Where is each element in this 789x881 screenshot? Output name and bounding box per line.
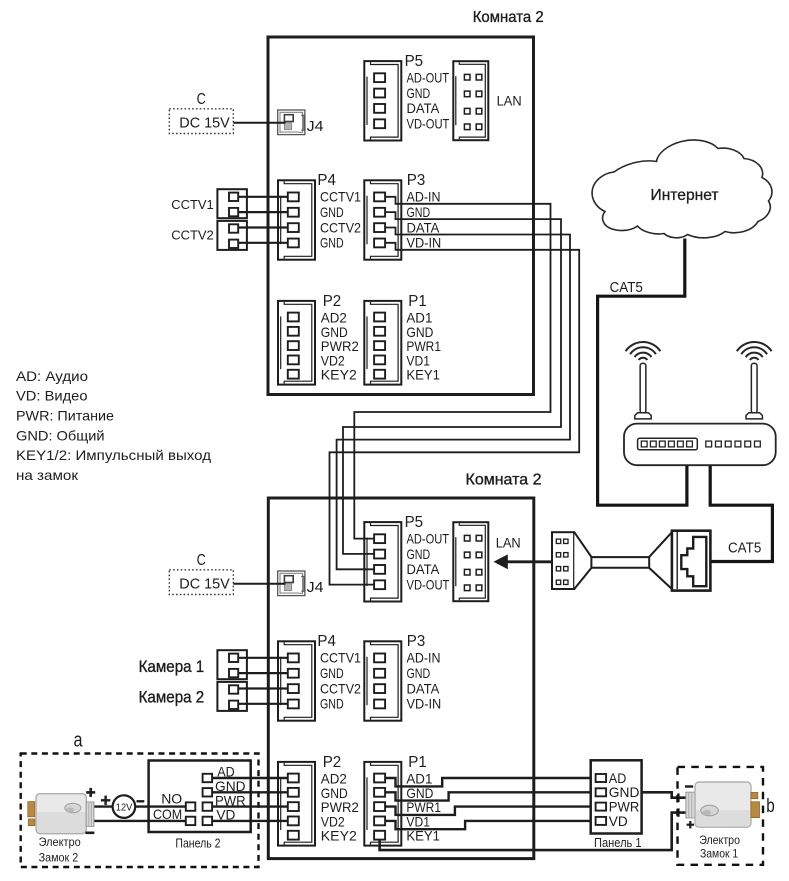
svg-text:KEY1: KEY1 [406, 367, 440, 383]
wire P3 DATA to lower P5 DATA [337, 228, 570, 570]
plus sign below lock 1 terminal [687, 821, 694, 828]
wires CCTV inputs to P4 (upper unit) [238, 197, 288, 243]
svg-text:CAT5: CAT5 [728, 540, 761, 556]
wires cameras to P4 (lower unit) [238, 658, 288, 704]
wire P3 AD-IN to lower P5 AD-OUT [354, 197, 550, 539]
wire DC15V to J4 (lower unit) [233, 583, 285, 585]
svg-text:CCTV2: CCTV2 [320, 680, 361, 696]
CAT5 cable internet to router [598, 239, 687, 506]
wire DC15V to J4 (upper unit) [233, 122, 285, 124]
connector J4 (upper unit) [278, 110, 324, 135]
svg-text:P5: P5 [405, 53, 424, 70]
svg-text:Электро: Электро [699, 833, 740, 847]
svg-text:Панель 2: Панель 2 [175, 835, 220, 850]
svg-text:P1: P1 [408, 754, 427, 771]
wire P1 AD1 to Panel 1 AD [385, 778, 591, 786]
svg-text:VD: VD [609, 813, 628, 829]
wire P1 GND to Panel 1 GND [385, 792, 591, 800]
patch cord connector (to LAN) [552, 532, 574, 589]
wire 12V source to panel 2 NO [135, 805, 186, 807]
svg-text:P4: P4 [317, 633, 336, 650]
minus sign below lock 2 terminal [85, 831, 94, 834]
svg-text:PWR: Питание: PWR: Питание [16, 408, 114, 424]
panel 1 pins AD GND PWR VD [596, 770, 640, 829]
camera 2 connector (lower unit) [139, 682, 247, 711]
minus sign right of 12V source [137, 800, 145, 802]
svg-text:Электро: Электро [39, 835, 81, 849]
legend text [16, 368, 211, 483]
wire P3 GND to lower P5 GND [343, 212, 561, 554]
svg-text:GND: GND [320, 204, 344, 220]
svg-text:Панель 1: Панель 1 [594, 835, 642, 850]
minus sign above lock 1 terminal [685, 785, 693, 787]
wire panel 1 GND to electric lock 1 [642, 792, 686, 797]
svg-text:NO: NO [161, 791, 182, 807]
connector P4 (lower unit) [278, 633, 361, 721]
power supply C: DC 15V (upper unit) [169, 91, 233, 133]
svg-text:GND: GND [407, 665, 431, 681]
svg-text:AD-IN: AD-IN [407, 189, 441, 205]
svg-text:DATA: DATA [407, 219, 440, 235]
connector P5 (upper unit) [364, 53, 449, 140]
12V power source circle [113, 795, 136, 818]
CAT5 cable router to patch cord [710, 465, 772, 561]
svg-text:P3: P3 [407, 633, 426, 650]
RJ45 plug of patch cord [672, 531, 711, 591]
svg-text:Камера 1: Камера 1 [139, 657, 205, 676]
svg-text:VD: Видео: VD: Видео [16, 388, 88, 404]
svg-text:CCTV1: CCTV1 [320, 189, 361, 205]
svg-text:C: C [197, 91, 206, 108]
svg-text:CCTV2: CCTV2 [320, 219, 361, 235]
camera 1 connector (lower unit) [139, 650, 247, 679]
svg-text:VD-OUT: VD-OUT [407, 577, 450, 593]
node label Комната 2 (upper unit) [473, 9, 544, 26]
svg-text:DATA: DATA [407, 100, 440, 116]
svg-text:DC 15V: DC 15V [179, 114, 229, 131]
connector P2 (upper unit) [278, 293, 359, 385]
internet cloud [592, 140, 772, 238]
svg-text:DC 15V: DC 15V [179, 575, 229, 592]
panel 2 right pin row AD GND PWR VD [203, 764, 246, 825]
connector P5 (lower unit) [364, 514, 449, 601]
connector P3 (lower unit) [364, 633, 441, 721]
svg-text:COM: COM [153, 806, 182, 822]
terminal tick on lock 1 KEY1 wire [677, 808, 679, 816]
svg-text:KEY2: KEY2 [321, 828, 357, 844]
svg-text:AD: Аудио: AD: Аудио [16, 368, 88, 384]
wire P1 PWR1 to Panel 1 PWR [385, 807, 591, 815]
svg-text:C: C [197, 552, 206, 569]
svg-text:GND: Общий: GND: Общий [16, 427, 105, 443]
svg-text:AD-OUT: AD-OUT [407, 70, 450, 86]
svg-text:GND: GND [320, 235, 344, 251]
svg-text:VD-OUT: VD-OUT [407, 116, 450, 132]
connector P4 (upper unit) [278, 172, 361, 260]
connector J4 (lower unit) [278, 571, 324, 596]
svg-text:DATA: DATA [407, 561, 440, 577]
wire lock 2 to 12V source [94, 805, 113, 807]
plus sign left of 12V source [101, 796, 110, 805]
node label Комната 2 (lower unit) [466, 472, 542, 489]
svg-text:AD-IN: AD-IN [407, 650, 441, 666]
svg-text:CCTV1: CCTV1 [171, 197, 214, 212]
upper unit enclosure box [268, 37, 534, 395]
CCTV2 camera input connector (upper unit) [171, 221, 247, 250]
svg-text:P4: P4 [317, 172, 336, 189]
connector P2 (lower unit) [278, 754, 359, 846]
dashed outline box a [21, 730, 259, 868]
svg-text:CCTV2: CCTV2 [171, 228, 214, 243]
svg-text:VD-IN: VD-IN [407, 696, 442, 712]
label CAT5 (internet cable) [610, 280, 643, 296]
CCTV1 camera input connector (upper unit) [171, 189, 247, 218]
terminal tick on lock 1 GND wire [677, 793, 679, 802]
dashed outline box b [678, 767, 775, 865]
lower unit enclosure box [268, 498, 534, 859]
svg-text:GND: GND [407, 85, 431, 101]
router right antenna [737, 342, 772, 419]
svg-text:DATA: DATA [407, 680, 440, 696]
svg-text:Замок 1: Замок 1 [700, 847, 738, 861]
svg-text:LAN: LAN [496, 535, 521, 551]
connector P1 (lower unit) [364, 754, 441, 846]
svg-text:GND: GND [320, 665, 344, 681]
svg-text:AD-OUT: AD-OUT [407, 531, 450, 547]
electric lock 1 [686, 782, 760, 861]
svg-text:P5: P5 [405, 514, 424, 531]
panel 2 NO COM pins [153, 791, 195, 826]
wire P3 VD-IN to lower P5 VD-OUT [330, 243, 580, 585]
svg-text:P2: P2 [323, 293, 342, 310]
svg-text:KEY2: KEY2 [321, 367, 357, 383]
svg-text:GND: GND [407, 546, 431, 562]
svg-text:Комната 2: Комната 2 [473, 9, 544, 26]
svg-text:GND: GND [320, 696, 344, 712]
svg-text:J4: J4 [307, 579, 324, 596]
svg-text:12V: 12V [116, 801, 133, 813]
svg-text:на замок: на замок [16, 467, 79, 483]
svg-text:CCTV1: CCTV1 [320, 650, 361, 666]
svg-text:KEY1/2: Импульсный выход: KEY1/2: Импульсный выход [16, 447, 211, 463]
svg-text:Замок 2: Замок 2 [39, 851, 79, 865]
svg-text:a: a [74, 730, 84, 752]
connector LAN (upper unit) [453, 61, 521, 140]
svg-text:Камера 2: Камера 2 [139, 688, 205, 707]
arrow wire patch cord into LAN [494, 554, 553, 569]
svg-text:VD-IN: VD-IN [407, 235, 442, 251]
panel 2 box [149, 761, 251, 851]
wire P1 KEY1 to electric lock 1 [380, 813, 686, 851]
wifi router [624, 424, 776, 466]
svg-text:P2: P2 [323, 754, 342, 771]
wire lock 2 to panel 2 COM [94, 820, 186, 822]
wires panel 2 to P2 (AD GND PWR VD) [212, 778, 288, 821]
svg-text:Комната 2: Комната 2 [466, 472, 542, 489]
svg-text:LAN: LAN [497, 93, 522, 109]
label CAT5 (router cable) [728, 540, 761, 556]
wire P1 VD1 to Panel 1 VD [385, 821, 591, 829]
svg-text:J4: J4 [307, 118, 324, 135]
plus sign above lock 2 terminal [86, 788, 95, 797]
router left antenna [626, 342, 661, 419]
power supply C: DC 15V (lower unit) [169, 552, 233, 594]
svg-text:P1: P1 [408, 293, 427, 310]
svg-text:Интернет: Интернет [651, 187, 720, 204]
panel 1 box [591, 760, 642, 850]
connector P3 (upper unit) [364, 172, 441, 260]
svg-text:P3: P3 [407, 172, 426, 189]
svg-text:GND: GND [407, 204, 431, 220]
connector LAN (lower unit) [453, 522, 520, 601]
svg-text:VD: VD [216, 807, 235, 823]
svg-text:b: b [766, 796, 775, 817]
electric lock 2 [28, 794, 94, 865]
connector P1 (upper unit) [364, 293, 441, 385]
patch cord cable body [574, 532, 672, 589]
svg-text:CAT5: CAT5 [610, 280, 643, 296]
